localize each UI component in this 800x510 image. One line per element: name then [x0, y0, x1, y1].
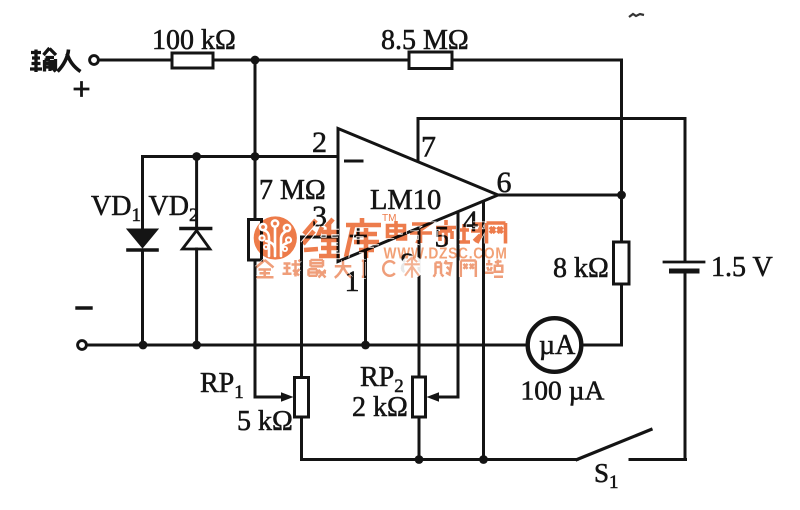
svg-text:100 kΩ: 100 kΩ	[152, 25, 236, 56]
svg-text:TM: TM	[382, 213, 396, 224]
wire output node to 8k	[620, 195, 623, 242]
glyph orange passes (multiply)	[303, 218, 381, 258]
minus polarity mark	[77, 306, 91, 309]
wire RP1 bottom to return	[300, 417, 303, 460]
glyph white edge rings	[303, 218, 381, 258]
switch S1 blade	[577, 430, 651, 460]
logo disc	[254, 216, 297, 259]
cai knockout star over pin 8	[401, 256, 424, 279]
pin 4 wire to bottom	[482, 202, 485, 460]
diode VD1	[128, 157, 157, 346]
wire 8k to meter	[582, 284, 622, 345]
wire pin2 horizontal	[143, 155, 339, 158]
scan specks	[629, 14, 644, 17]
RP1 wiper arrowhead	[281, 392, 294, 401]
svg-text:5 kΩ: 5 kΩ	[237, 406, 293, 437]
wire pin3 to RP1 top	[302, 237, 339, 378]
svg-text:8 kΩ: 8 kΩ	[553, 253, 609, 284]
svg-text:2: 2	[312, 126, 327, 159]
output wire pin6	[498, 194, 622, 197]
resistor 8k vertical	[614, 242, 630, 284]
svg-text:8.5 MΩ: 8.5 MΩ	[381, 25, 469, 56]
wire 7M to RP1 wiper	[255, 260, 283, 397]
svg-text:100 µA: 100 µA	[521, 375, 605, 406]
resistor 100k box	[172, 53, 213, 68]
pin 5 wire to RP2 wiper	[436, 212, 458, 397]
input label 输入	[30, 48, 81, 72]
bottom return wire	[302, 458, 578, 461]
node A junction dot (top)	[251, 56, 260, 65]
junction dot VD1 bottom	[139, 341, 148, 350]
battery B1 1.5V	[664, 261, 704, 264]
wire node A down to inverting node	[254, 60, 257, 157]
op-amp U1 LM10 triangle	[338, 129, 498, 262]
junction dot VD2 bottom	[192, 341, 201, 350]
svg-text:WWW.DZSC.COM: WWW.DZSC.COM	[384, 246, 508, 263]
svg-text:1.5 V: 1.5 V	[711, 252, 773, 283]
potentiometer RP1	[295, 378, 309, 418]
RP2 wiper arrowhead	[427, 392, 440, 401]
bottom terminal	[78, 341, 87, 350]
junction dot pin4 bottom	[479, 455, 488, 464]
junction dot pin1 rail	[361, 341, 370, 350]
plus symbol pin3	[351, 229, 366, 243]
bottom rail wire	[87, 344, 529, 347]
wire R2 to output column	[452, 60, 622, 195]
svg-text:6: 6	[497, 166, 512, 199]
diode VD2	[181, 157, 211, 346]
svg-text:7: 7	[421, 131, 436, 164]
switch S1 contact wire	[630, 458, 686, 461]
svg-text:µA: µA	[539, 330, 576, 361]
wire node B to 7M	[254, 157, 257, 220]
pin 8 wire to RP2 top	[418, 228, 421, 377]
junction dot VD2 top	[192, 152, 201, 161]
wire R1 to node A	[213, 59, 409, 62]
svg-text:2 kΩ: 2 kΩ	[352, 392, 408, 423]
minus symbol pin2	[346, 160, 363, 163]
resistor 8.5M box	[409, 52, 452, 69]
wire RP2 bottom to return	[418, 417, 421, 460]
meter M1 microammeter	[528, 318, 582, 372]
wire battery minus to switch	[684, 274, 687, 460]
pin 7 net to battery top	[418, 119, 685, 261]
input terminal +	[90, 56, 99, 65]
pin 1 wire	[364, 250, 367, 345]
resistor 7M vertical	[249, 220, 262, 261]
node B junction dot	[251, 152, 260, 161]
wire input to R1	[99, 59, 173, 62]
output junction dot	[617, 191, 626, 200]
plus polarity mark	[75, 83, 88, 96]
potentiometer RP2	[413, 377, 426, 417]
junction dot RP2 bottom	[415, 455, 424, 464]
svg-text:LM10: LM10	[370, 185, 441, 216]
